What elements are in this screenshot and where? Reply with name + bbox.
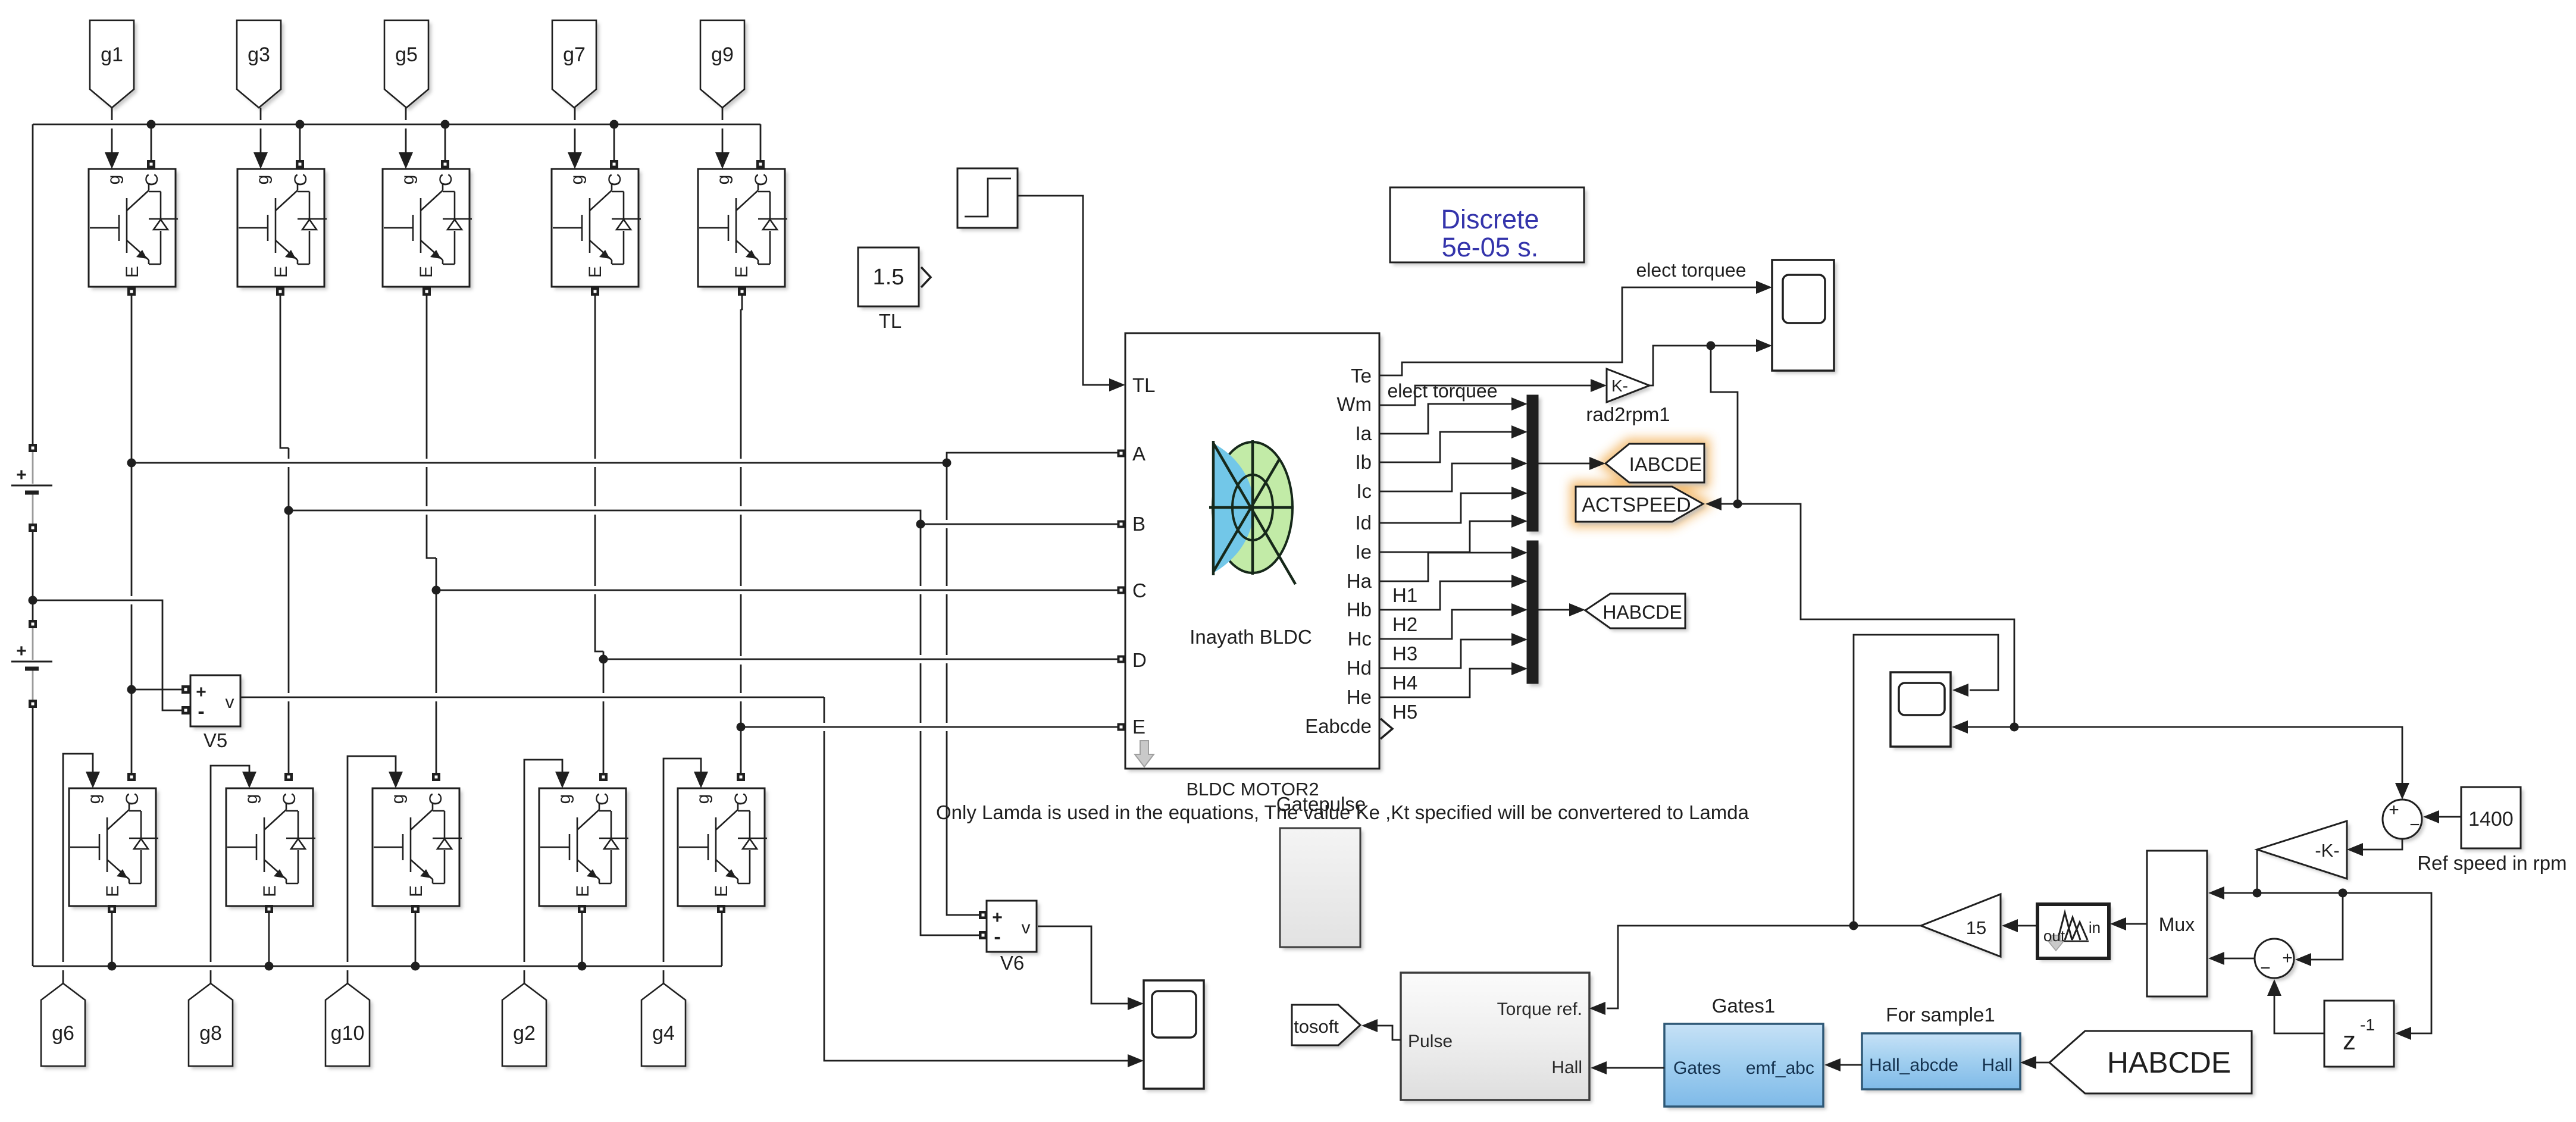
svg-text:v: v <box>226 692 234 712</box>
svg-text:Gates1: Gates1 <box>1712 995 1775 1017</box>
svg-text:v: v <box>1022 918 1031 938</box>
svg-text:IABCDE: IABCDE <box>1629 453 1702 475</box>
svg-text:Hc: Hc <box>1348 628 1372 650</box>
svg-text:+: + <box>2389 800 2399 820</box>
svg-text:Ib: Ib <box>1355 451 1372 473</box>
svg-text:H1: H1 <box>1392 584 1417 606</box>
svg-text:+: + <box>992 908 1003 927</box>
svg-text:TL: TL <box>1132 374 1156 396</box>
svg-text:−: − <box>2409 815 2420 835</box>
svg-text:-: - <box>994 926 1000 948</box>
svg-text:z: z <box>2343 1026 2356 1055</box>
svg-text:g8: g8 <box>199 1022 222 1045</box>
svg-text:Ic: Ic <box>1356 480 1372 502</box>
svg-text:+: + <box>16 465 27 485</box>
svg-text:+: + <box>16 641 27 661</box>
svg-text:TL: TL <box>879 310 902 332</box>
svg-text:-: - <box>198 700 204 723</box>
svg-text:g10: g10 <box>331 1022 365 1045</box>
svg-text:Hb: Hb <box>1347 598 1372 620</box>
svg-text:Ie: Ie <box>1355 541 1372 563</box>
svg-text:K-: K- <box>1611 377 1628 395</box>
svg-text:elect torquee: elect torquee <box>1636 259 1746 281</box>
svg-text:Te: Te <box>1351 365 1372 387</box>
svg-text:V6: V6 <box>1000 952 1024 974</box>
svg-text:15: 15 <box>1966 917 1986 938</box>
svg-text:g7: g7 <box>563 43 586 66</box>
svg-text:1.5: 1.5 <box>873 265 904 290</box>
svg-text:Hd: Hd <box>1347 657 1372 679</box>
svg-text:g9: g9 <box>711 43 734 66</box>
svg-text:Pulse: Pulse <box>1408 1032 1453 1051</box>
svg-text:H4: H4 <box>1392 672 1417 694</box>
svg-text:-K-: -K- <box>2315 840 2339 861</box>
svg-text:Eabcde: Eabcde <box>1305 715 1372 737</box>
svg-text:V5: V5 <box>204 729 227 751</box>
svg-text:tosoft: tosoft <box>1294 1016 1339 1037</box>
svg-text:Only Lamda is used in the equa: Only Lamda is used in the equations, The… <box>936 801 1749 823</box>
svg-text:in: in <box>2089 919 2101 936</box>
svg-text:Gates: Gates <box>1673 1058 1721 1078</box>
svg-text:Hall: Hall <box>1551 1058 1582 1077</box>
svg-text:g5: g5 <box>395 43 418 66</box>
svg-text:C: C <box>1132 579 1147 601</box>
svg-text:+: + <box>196 682 206 702</box>
svg-text:B: B <box>1132 513 1145 535</box>
svg-text:1400: 1400 <box>2468 808 2514 830</box>
svg-text:Hall_abcde: Hall_abcde <box>1869 1055 1958 1075</box>
svg-text:E: E <box>1132 716 1145 738</box>
svg-text:H5: H5 <box>1392 701 1417 723</box>
svg-text:He: He <box>1347 686 1372 708</box>
svg-text:out: out <box>2043 927 2065 945</box>
svg-text:Hall: Hall <box>1982 1055 2012 1075</box>
svg-text:HABCDE: HABCDE <box>2107 1046 2231 1079</box>
svg-text:-1: -1 <box>2360 1016 2375 1034</box>
svg-text:HABCDE: HABCDE <box>1602 601 1682 623</box>
svg-text:g1: g1 <box>101 43 123 66</box>
svg-text:H2: H2 <box>1392 613 1417 635</box>
svg-text:−: − <box>2260 958 2271 978</box>
svg-text:Wm: Wm <box>1336 393 1372 415</box>
svg-text:D: D <box>1132 649 1147 671</box>
svg-text:Torque ref.: Torque ref. <box>1497 999 1582 1019</box>
svg-text:emf_abc: emf_abc <box>1746 1058 1814 1078</box>
svg-text:For sample1: For sample1 <box>1886 1004 1995 1026</box>
svg-text:g3: g3 <box>248 43 270 66</box>
svg-text:g2: g2 <box>513 1022 536 1045</box>
svg-text:ACTSPEED: ACTSPEED <box>1582 494 1691 516</box>
svg-text:elect torquee: elect torquee <box>1387 380 1497 402</box>
svg-text:H3: H3 <box>1392 643 1417 665</box>
svg-text:5e-05 s.: 5e-05 s. <box>1442 232 1539 262</box>
svg-text:Mux: Mux <box>2159 914 2195 935</box>
svg-text:g4: g4 <box>652 1022 675 1045</box>
svg-text:A: A <box>1132 443 1145 465</box>
svg-text:rad2rpm1: rad2rpm1 <box>1586 403 1670 425</box>
svg-text:Discrete: Discrete <box>1441 204 1539 234</box>
svg-text:+: + <box>2282 948 2293 968</box>
svg-text:Ia: Ia <box>1355 422 1372 444</box>
svg-text:Inayath BLDC: Inayath BLDC <box>1190 626 1312 648</box>
svg-text:Id: Id <box>1355 512 1372 534</box>
svg-text:Ref speed in rpm: Ref speed in rpm <box>2417 852 2566 874</box>
svg-text:Ha: Ha <box>1347 570 1372 592</box>
svg-text:g6: g6 <box>52 1022 74 1045</box>
